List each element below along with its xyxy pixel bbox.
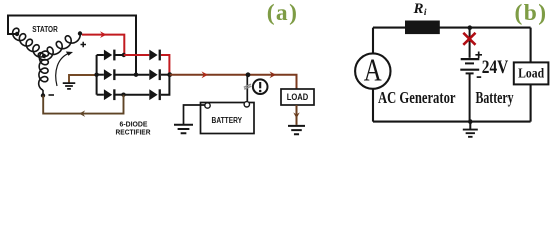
svg-text:A: A bbox=[364, 51, 382, 87]
ground (b) bbox=[469, 122, 471, 130]
ground (load return) bbox=[288, 126, 305, 134]
label + (stator positive) bbox=[81, 42, 87, 48]
inductor: stator coil L1 (upper-left phase winding) bbox=[13, 28, 44, 57]
wire: rectifier left negative bus bbox=[96, 55, 98, 95]
svg-text:AC Generator: AC Generator bbox=[378, 88, 456, 107]
wire: red phase-1 lead from + terminal to rectifier top row bbox=[82, 35, 124, 55]
svg-text:BATTERY: BATTERY bbox=[212, 115, 243, 125]
arrow: current direction on phase-1 lead bbox=[100, 31, 107, 38]
wire: B+ output bus to load bbox=[170, 75, 297, 89]
svg-text:6-DIODE: 6-DIODE bbox=[120, 121, 148, 128]
wire: (b) top conductor bbox=[373, 27, 531, 29]
wire: stator phase-2 top loop to rectifier middle row bbox=[8, 16, 136, 75]
wire: battery branch upper bbox=[469, 28, 471, 58]
wire: middle row link to diode D5 bbox=[116, 74, 150, 76]
wire: battery negative lead to ground bbox=[184, 105, 205, 125]
diode D1 (top left) bbox=[104, 50, 112, 61]
wire: brown return from phase-3 node to stator - terminal bbox=[43, 95, 123, 114]
node: phase-3 input junction bbox=[121, 93, 125, 97]
warning: circled exclamation bbox=[253, 79, 268, 94]
terminal: battery + post bbox=[244, 102, 249, 107]
diode D6 (bottom right) bbox=[149, 89, 157, 100]
wire: red top row to right bus corner bbox=[161, 55, 169, 75]
wire: bottom row to right bus, bus up to output node bbox=[161, 75, 169, 95]
terminal: battery - post bbox=[205, 103, 210, 108]
battery (alternator output) box bbox=[201, 103, 255, 134]
wire: load to ground bbox=[296, 105, 298, 125]
wire: battery positive lead (disconnected) bbox=[246, 75, 248, 101]
node: stator + terminal bbox=[78, 31, 82, 35]
label - (battery) bbox=[477, 76, 482, 78]
label - (stator negative) bbox=[49, 94, 55, 96]
node: stator - terminal bbox=[41, 93, 45, 97]
svg-text:STATOR: STATOR bbox=[32, 24, 58, 34]
wire: (b) left branch segments bbox=[372, 28, 374, 122]
node: stator wye centre bbox=[42, 54, 46, 58]
inductor: stator coil L3 (lower phase winding) bbox=[39, 51, 49, 90]
arrow: rotation/current direction inside stator bbox=[56, 53, 70, 86]
svg-text:Battery: Battery bbox=[476, 88, 514, 107]
load box (b) bbox=[514, 62, 549, 84]
label + (battery) bbox=[475, 52, 482, 59]
ammeter / AC generator symbol bbox=[355, 53, 390, 88]
svg-text:24V: 24V bbox=[482, 57, 509, 78]
svg-text:LOAD: LOAD bbox=[287, 92, 309, 102]
node: ground junction on bottom conductor bbox=[468, 119, 473, 124]
wire: middle row anode stub bbox=[97, 74, 104, 76]
svg-text:(b): (b) bbox=[515, 0, 548, 26]
wire: (b) bottom conductor bbox=[373, 121, 531, 123]
resistor R1 (black box) bbox=[405, 21, 440, 35]
node: phase-1 input junction bbox=[122, 53, 126, 57]
break: open battery connection bbox=[244, 84, 252, 89]
arrow: load current direction bbox=[293, 112, 299, 118]
node: battery tap junction bbox=[246, 72, 251, 77]
wire: brown negative-bus ground lead bbox=[69, 75, 97, 83]
wire: bottom row anode stub bbox=[97, 94, 104, 96]
inductor: stator coil L2 (upper-right phase winding) bbox=[38, 34, 80, 61]
node: negative bus junction bbox=[94, 73, 98, 77]
wire: battery branch lower bbox=[469, 73, 471, 121]
wire: top row anode stub bbox=[97, 54, 104, 56]
node: rectifier positive output bbox=[167, 72, 172, 77]
ground (rectifier negative bus) bbox=[63, 83, 76, 89]
disconnect X (red) bbox=[463, 33, 475, 45]
arrow: output current direction 2 bbox=[270, 71, 277, 78]
wire: (b) right branch segments bbox=[530, 28, 532, 122]
battery cell plates bbox=[461, 58, 480, 60]
diode D4 (top right) bbox=[149, 50, 157, 61]
wire: top row cathode stub to phase node bbox=[116, 54, 124, 56]
diode D3 (bottom left) bbox=[104, 89, 112, 100]
diode D2 (middle left) bbox=[104, 69, 112, 80]
wire: bottom row cathode stub to phase node bbox=[116, 94, 124, 96]
diode D5 (middle right) bbox=[149, 69, 157, 80]
load box (a) bbox=[281, 89, 314, 105]
svg-text:(a): (a) bbox=[267, 0, 299, 26]
wire: bottom row link to diode D6 bbox=[124, 94, 150, 96]
wire: middle row cathode stub to output node bbox=[161, 74, 170, 76]
wire: coil L3 lead to negative terminal bbox=[42, 90, 44, 96]
arrow: return current direction bbox=[79, 110, 85, 116]
node: phase-2 input junction bbox=[134, 73, 138, 77]
svg-text:RECTIFIER: RECTIFIER bbox=[116, 129, 151, 136]
node: stator phase-2 terminal bbox=[15, 32, 19, 36]
wire: red top row link to diode D4 bbox=[124, 54, 150, 56]
arrow: output current direction 1 bbox=[202, 71, 209, 78]
svg-text:Load: Load bbox=[518, 66, 544, 81]
node: battery branch top junction bbox=[468, 25, 473, 30]
ground (battery negative) bbox=[174, 125, 193, 133]
